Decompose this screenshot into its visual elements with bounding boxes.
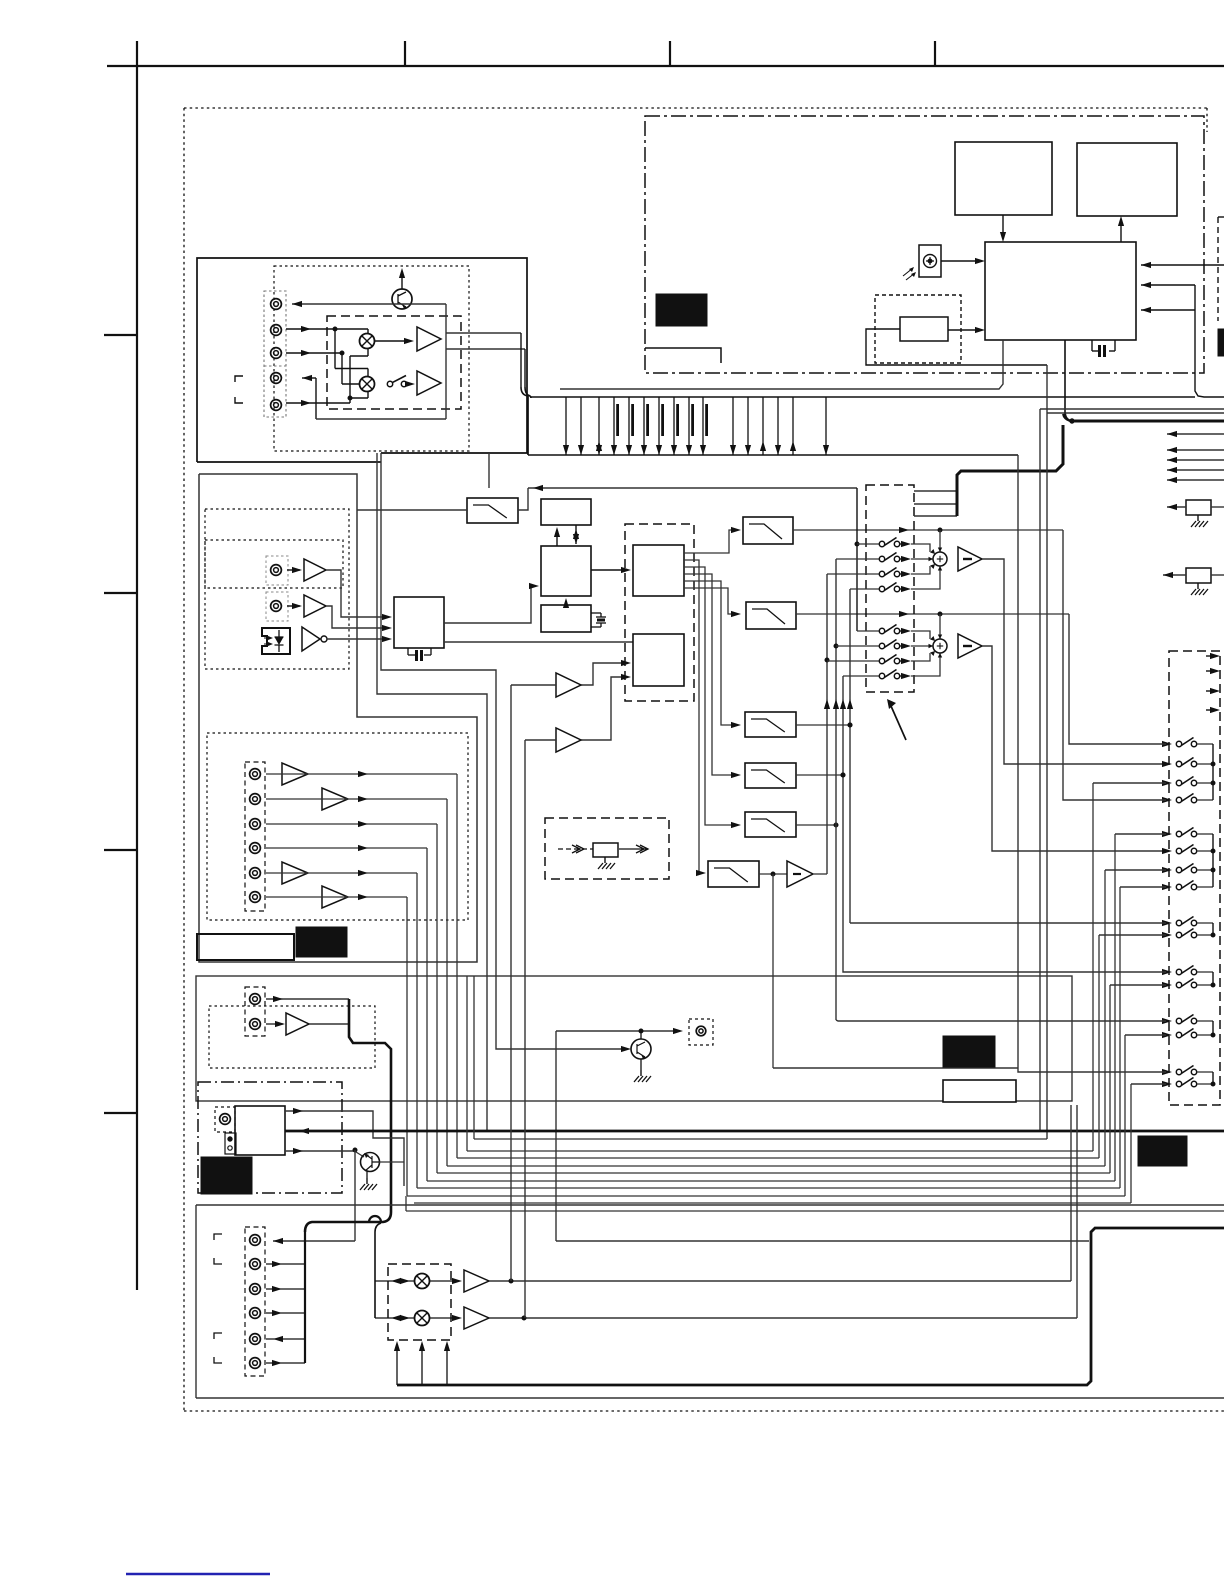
thick bus right	[1071, 420, 1224, 423]
bus label bar x703	[705, 404, 708, 436]
wire DIR to DAC2	[444, 641, 633, 643]
wire feed row1035	[1125, 1034, 1166, 1036]
section B dotted box	[205, 509, 349, 669]
jack B2 dotted square	[266, 592, 288, 621]
edge dashed fragment	[1217, 217, 1219, 321]
optical receiver U-opt	[262, 628, 290, 654]
Q2 right stub	[379, 1161, 404, 1163]
inner dashed box A	[327, 316, 461, 409]
jack strip E dashed	[245, 987, 265, 1036]
wire feed row972	[843, 968, 1166, 972]
output switch row y764	[1162, 761, 1172, 767]
bracket F2a	[214, 1333, 222, 1339]
headphone jack body	[235, 1106, 285, 1155]
amp B1	[304, 559, 326, 581]
output switch row y834	[1162, 831, 1172, 837]
amp A2	[417, 371, 441, 395]
wire cross h5	[335, 368, 368, 370]
wire M1 top stub	[367, 329, 369, 334]
phones contact box	[225, 1133, 236, 1154]
wire M2 bottom stub	[367, 391, 369, 398]
selector switch row y676	[843, 675, 879, 677]
amp D5	[282, 862, 308, 884]
phones transistor Q2	[361, 1153, 380, 1172]
wire feed row834	[1115, 833, 1166, 835]
wire feed row923	[850, 922, 1166, 924]
output switch row y972	[1162, 969, 1172, 975]
thick tap riser	[957, 425, 1063, 516]
wire DAC1 o2	[684, 560, 700, 873]
wire monitor cross	[556, 1240, 1089, 1242]
summing node S1	[933, 552, 947, 566]
output bank column 3	[1212, 923, 1214, 935]
page frame top rule	[107, 65, 1224, 67]
Q2 ground	[366, 1171, 368, 1178]
wire C-D bus1	[556, 530, 558, 546]
display block B2	[1077, 143, 1177, 216]
section D dotted box	[207, 733, 468, 920]
thick bus brace right	[1063, 412, 1072, 421]
selector switch row y574	[827, 573, 879, 575]
wire LPF2 out	[796, 613, 1069, 615]
output switch row y744	[1162, 741, 1172, 747]
wire F2 out	[489, 1317, 1077, 1319]
selector switch row y661	[827, 660, 879, 662]
mixer M1	[360, 334, 375, 349]
dashed box D1	[875, 295, 961, 363]
output switch row y935	[1162, 932, 1172, 938]
wire right in y470	[1167, 469, 1224, 471]
frame tick left 2	[104, 592, 138, 594]
frame left rule	[136, 41, 138, 1290]
label redacted BB1	[656, 294, 707, 326]
section A dotted box	[274, 266, 469, 451]
wire C to DAC1	[591, 569, 625, 571]
mixer M4	[415, 1311, 430, 1326]
wire S ctl drop	[560, 340, 1003, 389]
wire v406 ext	[405, 1196, 407, 1211]
mixer bias arrow x422	[421, 1346, 423, 1385]
wire LPF1 out	[793, 529, 1063, 531]
annotation arrow	[891, 706, 906, 740]
bundle wire y1166	[447, 1165, 1105, 1167]
wire S1 out	[982, 559, 1169, 764]
label frame D	[197, 934, 294, 960]
mixer bias arrow x397	[396, 1346, 398, 1385]
bundle riser 1125	[1124, 1035, 1126, 1196]
phones dash-dot box	[198, 1082, 342, 1193]
wire rail2 drop	[1017, 455, 1019, 1068]
output switch row y851	[1162, 848, 1172, 854]
wire cross h7	[350, 397, 368, 399]
muting transistor Q1	[392, 289, 412, 309]
wire row676 to sum	[911, 653, 940, 676]
wire inverter out	[327, 638, 388, 640]
output bank column 2	[1212, 834, 1214, 887]
frame tick top 3	[934, 41, 936, 66]
bundle wire y1151	[467, 1150, 1093, 1152]
selector top wire 1	[914, 490, 957, 492]
front panel notch	[645, 348, 721, 363]
wire pair upper	[1040, 408, 1224, 410]
bus line x644	[643, 397, 645, 455]
bus line x733	[732, 397, 734, 455]
wire v1040	[1039, 409, 1041, 1130]
wire jack E2	[266, 1023, 283, 1025]
frame tick top 1	[404, 41, 406, 66]
wire out2 drop	[524, 349, 526, 387]
cable hop F	[369, 1216, 381, 1222]
wire R1 loop to panel	[866, 329, 1047, 365]
wire brace down	[527, 396, 529, 455]
wire LPF A0 in	[357, 509, 467, 511]
mixer bias arrow x447	[446, 1346, 448, 1385]
DAC dashed box	[625, 524, 694, 701]
bus line x599	[598, 397, 600, 455]
selector switch row y559	[836, 558, 879, 560]
wire F row5	[266, 1338, 305, 1340]
wire amp E1 out	[309, 1023, 349, 1025]
jack D2	[250, 794, 261, 805]
footer link underline	[126, 1573, 270, 1575]
jack P1	[220, 1114, 231, 1125]
bus line x778	[777, 397, 779, 455]
section B outline	[199, 474, 477, 962]
jack D3	[250, 819, 261, 830]
frame tick left 1	[104, 334, 138, 336]
wire feed row935	[1099, 934, 1166, 936]
bus line x748	[747, 397, 749, 455]
wire control bus riser	[1195, 285, 1224, 397]
jack A4	[271, 373, 282, 384]
label redacted E	[943, 1036, 995, 1067]
wire right in y434	[1167, 433, 1224, 435]
amp D1	[282, 763, 308, 785]
bead FB1	[1186, 500, 1211, 515]
selector switch row y646	[836, 645, 879, 647]
wire v556	[555, 1031, 557, 1241]
wire M4 out	[430, 1317, 456, 1319]
LPF2	[746, 602, 796, 629]
wire jack E1	[266, 998, 349, 1000]
wire v467	[466, 976, 468, 1151]
wire row559 to sum	[911, 558, 933, 560]
front panel dash-dot box	[645, 116, 1204, 373]
wire monitor out	[556, 1030, 677, 1032]
wire DIR to DSP	[444, 586, 533, 623]
wire lpf1 into sum	[939, 530, 941, 552]
wire feed row887	[1120, 886, 1166, 888]
wire S box drop	[1064, 340, 1066, 412]
jack A1	[271, 299, 282, 310]
section E dotted box	[209, 1006, 375, 1068]
wire A return	[316, 418, 446, 420]
bundle wire y1158	[457, 1157, 1099, 1159]
jack strip A divider	[264, 365, 286, 367]
wire sel feed v827	[826, 574, 828, 874]
wire row661 to sum	[911, 653, 930, 661]
wire row589 to sum	[911, 566, 940, 589]
wire exit 1211	[406, 1210, 1224, 1212]
reg out arrow	[619, 848, 648, 850]
wire feed row870	[1105, 869, 1166, 871]
wire F row4	[266, 1312, 305, 1314]
selector top wire 3	[914, 515, 957, 517]
reg in arrow	[558, 848, 593, 850]
wire LPF A0 out	[518, 488, 528, 510]
wire H1 out	[813, 873, 827, 875]
wire DAC1 o4	[684, 574, 735, 775]
wire amp B1 out	[326, 570, 388, 617]
wire to tape jack1	[273, 1240, 355, 1242]
jack F2	[250, 1259, 261, 1270]
frame tick top 2	[669, 41, 671, 66]
DSP ROM E	[541, 605, 591, 632]
LPF5	[745, 812, 796, 837]
wire C-D bus2	[575, 525, 577, 544]
LPF6	[708, 861, 759, 887]
jack D1	[250, 769, 261, 780]
wire row631 to sum	[911, 631, 930, 639]
wire F row2	[266, 1263, 305, 1265]
bracket mark A lower	[235, 397, 243, 403]
wire R1 to S	[948, 329, 979, 331]
cable bus F	[304, 1232, 306, 1363]
output bank arrow y656	[1206, 655, 1214, 657]
bundle riser 1105	[1104, 870, 1106, 1166]
DAC2	[633, 634, 684, 686]
wire A4 riser	[315, 378, 317, 419]
bus label bar x629	[631, 404, 634, 436]
bundle wire y1203	[414, 1202, 1131, 1204]
jack D4	[250, 843, 261, 854]
output bank dashed box	[1169, 651, 1220, 1105]
wire LPF6 tap down	[772, 874, 774, 1068]
bus line x689	[688, 397, 690, 455]
wire LPF4 out	[796, 774, 843, 776]
wire S to B2	[1120, 222, 1122, 242]
wire LPF A0 top feed	[488, 453, 490, 488]
LPF A0	[467, 498, 518, 523]
mixer M3	[415, 1274, 430, 1289]
headphone amp H1	[787, 861, 813, 887]
jack B1 dotted square	[266, 556, 288, 585]
amp E1	[286, 1013, 309, 1035]
wire D row y848	[266, 847, 427, 849]
wire jack A5 in	[286, 402, 350, 404]
wire D row y799	[266, 798, 348, 800]
cable curve F	[305, 1212, 391, 1232]
wire F row6	[266, 1362, 305, 1364]
bus line x614	[613, 397, 615, 455]
wire out1 drop	[520, 333, 522, 387]
amp F1	[464, 1270, 489, 1292]
mixer M2	[360, 377, 375, 392]
jack strip D dashed	[245, 762, 265, 911]
bus line x703	[702, 397, 704, 455]
wire amp G1 to DAC2	[581, 663, 627, 685]
section A outline	[197, 258, 527, 462]
Q3 ground	[640, 1059, 642, 1070]
output bank column 4	[1212, 972, 1214, 985]
wire feed row744	[1069, 614, 1166, 744]
bus line x674	[673, 397, 675, 455]
output bank arrow y710	[1206, 709, 1214, 711]
output switch row y985	[1162, 982, 1172, 988]
wire pair lower	[1047, 412, 1224, 414]
jack strip F dashed	[245, 1227, 265, 1376]
cable riser E	[349, 999, 391, 1212]
wire v496 mute	[381, 453, 625, 1049]
bundle wire y1188	[417, 1187, 1120, 1189]
LPF3	[745, 712, 796, 737]
wire right in y460	[1167, 459, 1224, 461]
Q1 supply arrow	[401, 274, 403, 289]
wire cross v-c	[349, 356, 351, 403]
bus label bar x674	[676, 404, 679, 436]
edge black label	[1218, 329, 1224, 356]
output switch row y800	[1162, 797, 1172, 803]
wire jack B2	[287, 605, 300, 607]
jack A3	[271, 348, 282, 359]
wire v1047	[1046, 365, 1048, 1139]
wire M1 bottom stub	[367, 348, 369, 356]
amp B2	[304, 595, 326, 617]
wire E to C	[565, 601, 567, 605]
wire M2 left	[342, 383, 359, 385]
jack F3	[250, 1284, 261, 1295]
bus line x659	[658, 397, 660, 455]
wire F1 out	[489, 1280, 1071, 1282]
wire v525	[524, 740, 526, 1318]
wire DAC1 o5	[684, 581, 735, 725]
wire feed row985	[1110, 984, 1166, 986]
wire A3 drop	[341, 353, 343, 384]
wire G2 in	[525, 739, 556, 741]
system control IC S	[985, 242, 1136, 340]
output switch row y1072	[1162, 1069, 1172, 1075]
bundle riser 1093	[1092, 783, 1094, 1151]
bus line x581	[580, 397, 582, 455]
wire phones drive	[285, 1150, 355, 1152]
wire A out1	[446, 332, 521, 334]
label redacted D	[296, 927, 347, 957]
jack A2	[271, 325, 282, 336]
wire DAC1 o3	[684, 567, 735, 825]
jack E3 dashed square	[689, 1019, 713, 1045]
bus label bar x614	[616, 404, 619, 436]
wire row646 to sum	[911, 645, 933, 647]
bus label bar x689	[691, 404, 694, 436]
wire M1 to amp A1	[375, 340, 409, 342]
wire feed row1021	[836, 1020, 1166, 1021]
wire right in y450	[1167, 449, 1224, 451]
output switch row y1084	[1162, 1081, 1172, 1087]
wire v474	[473, 976, 475, 1139]
wire sel feed v836	[835, 559, 837, 1020]
wire S input 2	[1141, 284, 1195, 286]
wire D row y873	[266, 872, 308, 874]
wire F row3	[266, 1288, 305, 1290]
regulator dashed box	[545, 818, 669, 879]
bundle riser 1099	[1098, 935, 1100, 1158]
bus line x566	[565, 397, 567, 455]
wire mixer feed	[375, 1223, 381, 1318]
wire B1 to S	[1002, 215, 1004, 236]
wire row544 to sum	[911, 544, 930, 552]
wire D row y774	[266, 773, 308, 775]
label redacted P	[201, 1157, 252, 1194]
wire right in y480	[1167, 479, 1224, 481]
output bank column 6	[1212, 1072, 1214, 1084]
jack P1 dotted square	[215, 1107, 235, 1132]
wire A out vertical	[445, 304, 447, 419]
output bank column 1	[1212, 744, 1214, 800]
wire LPF5 out	[796, 824, 836, 826]
output switch row y870	[1162, 867, 1172, 873]
wire jack A3 in	[286, 352, 342, 354]
label redacted bundle	[1138, 1136, 1187, 1166]
wire v487	[377, 453, 487, 1131]
wire amp B2 out	[326, 606, 388, 628]
bundle riser 1131	[1130, 1084, 1132, 1203]
wire DAC1 o1	[684, 530, 737, 553]
crystal X3	[591, 612, 601, 614]
wire M4 in	[375, 1317, 414, 1319]
bus rail upper	[530, 396, 1195, 398]
sub block R1	[900, 317, 948, 341]
output switch row y1021	[1162, 1018, 1172, 1024]
amp D2	[322, 788, 348, 810]
amp D6	[322, 886, 348, 908]
wire feed row1084	[1131, 1083, 1166, 1085]
amp G2	[556, 728, 581, 752]
bus line x826	[825, 397, 827, 455]
jack E2	[250, 1019, 261, 1030]
wire LPF6 out	[759, 873, 787, 875]
wire v1071	[1070, 1105, 1072, 1281]
wire S2 out	[982, 646, 1169, 851]
wire feed row783	[1093, 782, 1166, 784]
Q3 top stub	[640, 1031, 642, 1039]
wire v511	[510, 685, 512, 1281]
bus line x629	[628, 397, 630, 455]
wire rec select	[528, 487, 857, 489]
wire A2 drop	[334, 329, 336, 369]
bundle wire y1139	[474, 1138, 1047, 1140]
jack E1	[250, 994, 261, 1005]
bundle riser 1115	[1114, 834, 1116, 1181]
reg ground	[604, 857, 606, 863]
summing node S2	[933, 639, 947, 653]
bracket F1a	[214, 1234, 222, 1240]
wire sel feed v843	[842, 676, 844, 968]
output switch row y783	[1162, 780, 1172, 786]
section E outline	[196, 976, 1072, 1101]
wire sel feed v857	[856, 488, 858, 631]
wire phones signal thick	[285, 1130, 1224, 1133]
wire M2 top stub	[367, 369, 369, 378]
wire D row y824	[266, 823, 437, 825]
wire jack A4 out	[302, 377, 316, 379]
wire amp G2 to DAC2	[581, 677, 627, 740]
wire v357	[354, 1150, 356, 1241]
section F left edge	[195, 1205, 197, 1398]
DSP RAM D	[541, 499, 591, 525]
thick return F	[397, 1228, 1224, 1385]
wire sel feed v850	[849, 589, 851, 923]
remote IR arrows	[903, 268, 913, 276]
